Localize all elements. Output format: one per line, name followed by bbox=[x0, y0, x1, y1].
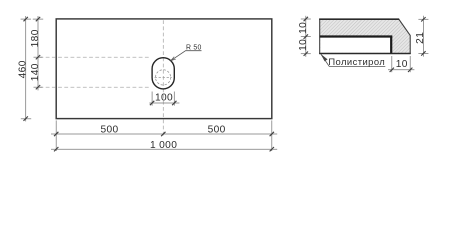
label 1 000 bbox=[150, 140, 177, 151]
svg-text:Полистирол: Полистирол bbox=[328, 56, 385, 67]
left extension bar at panel top corner (outer) bbox=[21, 18, 31, 20]
svg-text:R 50: R 50 bbox=[186, 45, 202, 52]
section ext bar bottom bbox=[301, 52, 311, 56]
label 100 bbox=[155, 93, 173, 104]
svg-text:10: 10 bbox=[396, 59, 408, 70]
dimension 100 line bbox=[149, 102, 179, 104]
label 180 (rotated) bbox=[30, 29, 41, 47]
label Полистирол bbox=[328, 56, 385, 67]
section bottom edge bbox=[319, 53, 411, 55]
tick rib right bbox=[408, 68, 412, 72]
tick inner bottom bbox=[34, 85, 43, 89]
label 10 upper (rotated) bbox=[298, 22, 309, 34]
tick outer bottom bbox=[24, 116, 28, 120]
section top edge (thick) bbox=[319, 18, 399, 20]
polystyrene core (white) bbox=[320, 38, 390, 53]
thick right boundary of core bbox=[390, 36, 392, 53]
bottom dimension 10 (rib width): extension lines bbox=[392, 56, 410, 72]
tick 500 left bbox=[54, 132, 58, 136]
label 500 left bbox=[100, 125, 118, 136]
bottom extension line right corner bbox=[271, 120, 273, 151]
tick 100 left bbox=[150, 101, 154, 105]
label 500 right bbox=[208, 125, 226, 136]
svg-text:10: 10 bbox=[298, 39, 309, 51]
bottom dimension 10 line bbox=[388, 69, 414, 71]
tick inner top bbox=[36, 17, 40, 21]
dimension line 1000 bbox=[51, 148, 277, 150]
section ext bar top bbox=[301, 17, 311, 21]
label 21 (rotated) bbox=[415, 32, 426, 44]
svg-text:1 000: 1 000 bbox=[150, 140, 177, 151]
21 ext bar top bbox=[418, 17, 428, 21]
section ext bar middle bbox=[301, 34, 311, 38]
section left dimension line (10/10) bbox=[305, 16, 307, 57]
panel outline (plan view 1000x460) bbox=[56, 19, 272, 119]
horizontal dashed extension line at hole top tangent bbox=[40, 56, 151, 58]
section right dimension line 21 bbox=[422, 16, 424, 57]
tick rib left bbox=[390, 68, 394, 72]
tick 500 middle bbox=[161, 132, 165, 136]
svg-text:10: 10 bbox=[298, 22, 309, 34]
tick 500 right bbox=[270, 132, 274, 136]
dimension line 500/500 bbox=[51, 133, 277, 135]
svg-text:500: 500 bbox=[208, 125, 226, 136]
label 10 lower (rotated) bbox=[298, 39, 309, 51]
leader line R 50 bbox=[171, 51, 202, 61]
tick 100 right bbox=[172, 101, 176, 105]
dimension 100 under hole: extension lines bbox=[152, 92, 174, 106]
vertical dashed centerline of hole bbox=[162, 20, 164, 135]
section body with hatch (top skin and right rib, chamfered corner) bbox=[320, 19, 411, 53]
tick outer top bbox=[24, 17, 28, 21]
obround hole R50 (100x140) bbox=[152, 58, 174, 89]
tick 1000 right bbox=[270, 147, 274, 151]
svg-text:500: 500 bbox=[100, 125, 118, 136]
hidden dashed circle inside hole bbox=[155, 70, 172, 85]
21 ext bar bottom bbox=[418, 51, 428, 55]
label 10 (rib) bbox=[396, 59, 408, 70]
left extension bar at panel bottom corner bbox=[21, 118, 31, 120]
leader Полистирол with arrow bbox=[321, 54, 386, 66]
dimension line 460 (outer vertical) bbox=[25, 16, 27, 121]
label 460 (rotated) bbox=[18, 60, 29, 78]
horizontal dashed extension line at hole bottom tangent bbox=[40, 86, 150, 88]
thick top boundary of core bbox=[320, 35, 393, 37]
left extension bar at panel top corner (inner) bbox=[33, 18, 43, 20]
label 140 (rotated) bbox=[30, 63, 41, 81]
tick 1000 left bbox=[54, 147, 58, 151]
dimension line 180/140 (inner vertical) bbox=[37, 16, 39, 90]
svg-text:100: 100 bbox=[155, 93, 173, 104]
svg-text:180: 180 bbox=[30, 29, 41, 47]
tick inner middle bbox=[34, 55, 43, 59]
svg-text:21: 21 bbox=[415, 32, 426, 44]
bottom extension line left corner bbox=[55, 120, 57, 151]
svg-text:460: 460 bbox=[18, 60, 29, 78]
svg-text:140: 140 bbox=[30, 63, 41, 81]
label R 50 bbox=[186, 45, 202, 52]
